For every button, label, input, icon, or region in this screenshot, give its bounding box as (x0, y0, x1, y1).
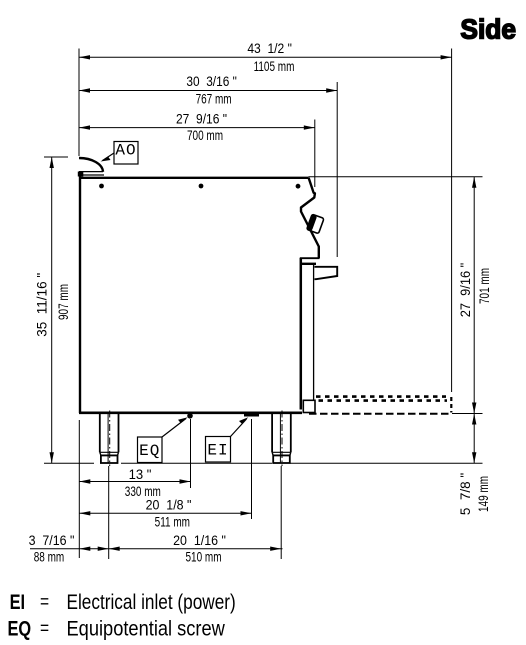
svg-text:EQ: EQ (139, 442, 160, 460)
svg-text:13 ": 13 " (129, 467, 152, 482)
right leg (272, 411, 291, 467)
extension line 700mm x314.8 (314, 120, 316, 188)
extension line at open-door level y413.5 (452, 413, 483, 415)
svg-text:27 9/16 ": 27 9/16 " (176, 111, 227, 127)
door face (300, 258, 303, 410)
svg-text:=: = (40, 617, 49, 639)
svg-text:1105 mm: 1105 mm (254, 58, 295, 74)
body bottom (79, 411, 302, 414)
svg-text:767 mm: 767 mm (196, 91, 232, 107)
svg-text:5 7/8 ": 5 7/8 " (458, 473, 473, 516)
bottom extension: right leg CL (280, 466, 282, 559)
svg-text:907 mm: 907 mm (55, 284, 71, 320)
dimension 27 9/16" 700mm top (79, 111, 315, 143)
svg-text:AO: AO (115, 142, 136, 160)
dimension 13" 330mm (79, 467, 190, 499)
dimension 43 1/2" 1105mm (79, 41, 452, 75)
dimension 5 7/8" 149mm right vertical (458, 414, 492, 516)
svg-text:701 mm: 701 mm (476, 268, 492, 304)
bottom extension: body left (78, 420, 80, 558)
svg-text:30 3/16 ": 30 3/16 " (186, 73, 236, 89)
svg-text:Side: Side (460, 13, 516, 45)
dimension 35 11/16" 907mm left vertical (35, 157, 72, 463)
svg-text:511 mm: 511 mm (155, 514, 190, 530)
extension line 767mm x337.2 (336, 82, 338, 257)
legend EI (10, 590, 236, 614)
svg-text:43 1/2 ": 43 1/2 " (247, 41, 292, 57)
svg-text:20 1/16 ": 20 1/16 " (173, 532, 226, 548)
right profile: back edge and control panel (301, 178, 319, 258)
worktop surface (79, 177, 309, 179)
screw dot 3 (296, 184, 301, 189)
door bottom box (303, 400, 315, 412)
svg-text:510 mm: 510 mm (185, 549, 221, 565)
svg-text:EI: EI (10, 590, 25, 613)
body left edge (79, 176, 81, 413)
screw dot 2 (199, 184, 204, 189)
bullnose arc A0 detail (79, 158, 103, 172)
screw dot 1 (99, 184, 104, 189)
handle bracket (302, 263, 316, 265)
dimension 30 3/16" 767mm (79, 73, 337, 106)
svg-text:EQ: EQ (8, 616, 32, 639)
svg-text:EI: EI (207, 441, 228, 459)
open door dashed bottom (309, 413, 452, 415)
dimension 3 7/16" 88mm and 20 1/16" 510mm (29, 532, 283, 565)
svg-text:35 11/16 ": 35 11/16 " (35, 273, 50, 337)
EI label (206, 417, 249, 462)
legend EQ (8, 616, 226, 640)
extension line 1105mm right x451.6 (451, 49, 453, 393)
control knob (307, 214, 324, 234)
floor line segments (44, 462, 94, 464)
EI inlet bar (244, 413, 259, 417)
open door dashed right end (450, 397, 452, 413)
dimension 27 9/16" 701mm right vertical (458, 177, 493, 414)
A0 label (101, 142, 139, 165)
svg-text:3 7/16 ": 3 7/16 " (29, 532, 75, 548)
svg-text:88 mm: 88 mm (34, 549, 65, 565)
svg-text:Equipotential screw: Equipotential screw (67, 617, 226, 640)
left leg (100, 411, 119, 467)
extension line left x79 (78, 49, 80, 157)
height dim top tick (44, 156, 68, 158)
bottom extension: EQ x190.5 (190, 419, 192, 488)
EQ screw dot (187, 413, 193, 419)
door handle (315, 267, 338, 279)
svg-text:27 9/16 ": 27 9/16 " (458, 262, 473, 317)
svg-text:=: = (40, 591, 49, 613)
dimension 20 1/8" 511mm (79, 497, 251, 530)
svg-text:700 mm: 700 mm (187, 127, 223, 143)
bottom extension: left leg CL (108, 466, 110, 559)
top surface extension line right (309, 176, 483, 178)
svg-text:149 mm: 149 mm (475, 476, 491, 512)
door top edge (300, 257, 320, 259)
svg-text:Electrical inlet (power): Electrical inlet (power) (67, 592, 236, 615)
door inner line (313, 264, 315, 400)
svg-text:20 1/8 ": 20 1/8 " (146, 497, 192, 513)
open door dashed (top strip) (316, 395, 446, 398)
EQ label (138, 417, 188, 462)
bottom extension: EI x251.5 (251, 419, 253, 519)
